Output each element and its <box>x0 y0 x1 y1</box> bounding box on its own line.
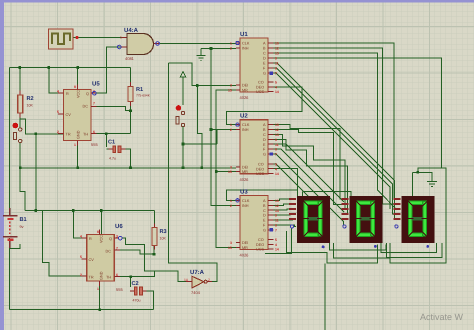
svg-text:TR: TR <box>89 276 94 280</box>
wire pulse generator to U4 input A <box>73 37 127 39</box>
svg-text:6: 6 <box>93 130 95 134</box>
svg-text:1: 1 <box>97 287 99 291</box>
svg-text:3: 3 <box>230 84 232 88</box>
pulse generator <box>49 29 79 49</box>
wire lower vcc bus <box>25 211 154 239</box>
svg-text:CLK: CLK <box>242 42 250 46</box>
pushbutton near R2 <box>13 123 22 143</box>
svg-text:CLK: CLK <box>242 123 250 127</box>
wire U5 DC to R1 <box>91 106 131 110</box>
wire U6 TR chain from U5 area <box>36 211 82 277</box>
svg-text:G: G <box>263 72 266 76</box>
counter IC U2 <box>228 113 279 183</box>
svg-text:DEO: DEO <box>256 243 264 247</box>
digit 0 display 2 <box>355 200 376 238</box>
svg-text:10K: 10K <box>27 104 34 108</box>
svg-text:U3: U3 <box>240 189 248 196</box>
wire U2 G diagonal to display2 <box>274 154 344 226</box>
555 timer U5 <box>57 81 100 148</box>
svg-text:MR: MR <box>242 170 248 174</box>
svg-text:DEO: DEO <box>256 167 264 171</box>
svg-text:14: 14 <box>275 90 279 94</box>
arrow actuator mid <box>180 72 186 106</box>
svg-text:4: 4 <box>57 90 59 94</box>
svg-text:10: 10 <box>275 199 279 203</box>
svg-text:13: 13 <box>275 52 279 56</box>
svg-text:5: 5 <box>275 238 277 242</box>
svg-text:7: 7 <box>275 228 277 232</box>
svg-text:5: 5 <box>57 110 59 114</box>
svg-text:G: G <box>263 153 266 157</box>
wire gnd rail to lower bus zigzag <box>20 168 25 211</box>
svg-text:TR: TR <box>66 133 71 137</box>
svg-text:10: 10 <box>275 123 279 127</box>
wire U3 outputs to display1 <box>274 199 297 226</box>
svg-text:4026: 4026 <box>240 177 250 182</box>
svg-text:CLK: CLK <box>242 199 250 203</box>
svg-text:B1: B1 <box>20 217 27 223</box>
wire U6 DC to R3 bottom <box>114 245 154 254</box>
svg-text:8: 8 <box>97 230 99 234</box>
svg-text:3: 3 <box>230 241 232 245</box>
svg-text:INH: INH <box>242 47 249 51</box>
svg-text:12: 12 <box>275 128 279 132</box>
svg-text:C: C <box>263 209 266 213</box>
resistor R2 <box>18 91 34 118</box>
svg-text:10: 10 <box>275 42 279 46</box>
wire U1 F diagonal to display3 <box>274 68 397 214</box>
pushbutton mid <box>176 105 217 168</box>
wire U4 output to U1 CLK <box>160 43 236 45</box>
wire U2 D staircase to display2 pin4 <box>274 139 348 214</box>
svg-text:15: 15 <box>228 246 232 250</box>
wire R1 lead through DC node to TH <box>91 102 131 134</box>
svg-text:1: 1 <box>74 143 76 147</box>
svg-text:R3: R3 <box>160 229 167 235</box>
svg-text:13: 13 <box>275 209 279 213</box>
svg-text:5: 5 <box>80 255 82 259</box>
svg-text:INH: INH <box>242 204 249 208</box>
capacitor C1 <box>108 140 126 161</box>
svg-text:12: 12 <box>275 47 279 51</box>
svg-text:11: 11 <box>275 62 279 66</box>
svg-text:GND: GND <box>77 130 81 139</box>
svg-text:MR: MR <box>242 89 248 93</box>
wire U6 Q to U7 input <box>122 238 188 282</box>
svg-text:VCC: VCC <box>100 235 104 243</box>
svg-text:GND: GND <box>100 271 104 280</box>
wire U2 F diagonal to display2 <box>274 149 345 212</box>
wire U1 C to display3 pin3 <box>274 53 397 209</box>
window border left <box>0 0 4 330</box>
svg-text:9: 9 <box>275 214 277 218</box>
wire U1 G diagonal to display3 <box>274 73 391 209</box>
svg-text:3: 3 <box>230 165 232 169</box>
svg-text:UCS: UCS <box>256 172 264 176</box>
svg-text:4: 4 <box>275 243 277 247</box>
svg-text:775-694K: 775-694K <box>136 94 151 98</box>
inverter U7:A <box>184 269 212 295</box>
svg-text:7: 7 <box>275 72 277 76</box>
svg-text:INH: INH <box>242 128 249 132</box>
svg-text:15: 15 <box>228 89 232 93</box>
svg-text:15: 15 <box>228 170 232 174</box>
7-segment display 3 <box>394 196 435 248</box>
svg-text:U1: U1 <box>240 31 248 38</box>
svg-text:4081: 4081 <box>125 56 135 61</box>
wire under displays loop 1 <box>329 243 386 250</box>
svg-text:UCS: UCS <box>256 90 264 94</box>
wire U2 CO diagonal to display1 top <box>274 164 309 197</box>
svg-text:D: D <box>263 214 266 218</box>
svg-text:4: 4 <box>80 235 82 239</box>
wire under displays loop 4 <box>324 264 326 331</box>
svg-text:14: 14 <box>275 248 279 252</box>
wire under displays right loops <box>381 168 446 263</box>
wire U1 MR chain <box>216 90 236 248</box>
svg-text:1: 1 <box>230 123 232 127</box>
counter IC U3 <box>228 189 279 258</box>
svg-text:U7:A: U7:A <box>190 269 205 276</box>
svg-text:1: 1 <box>230 42 232 46</box>
window border top <box>0 0 474 3</box>
wire U6 TH joins <box>114 271 154 287</box>
wire under displays loop 3 <box>333 243 390 258</box>
svg-text:2: 2 <box>230 47 232 51</box>
svg-text:5: 5 <box>275 162 277 166</box>
svg-text:UCS: UCS <box>256 248 264 252</box>
wire U5 TR to R2 bottom and button <box>20 113 63 211</box>
digit 0 display 3 <box>407 200 428 238</box>
555 timer U6 <box>80 223 123 292</box>
svg-text:MR: MR <box>242 246 248 250</box>
svg-text:2: 2 <box>80 273 82 277</box>
svg-text:13: 13 <box>275 133 279 137</box>
svg-text:12: 12 <box>275 204 279 208</box>
svg-text:1: 1 <box>230 199 232 203</box>
svg-text:DC: DC <box>106 250 112 254</box>
svg-text:Q: Q <box>109 237 112 241</box>
svg-text:6: 6 <box>275 224 277 228</box>
wire under displays loop 2 <box>265 228 378 263</box>
svg-text:9v: 9v <box>20 225 24 229</box>
wire U2 E diagonal to display2 <box>274 144 345 202</box>
resistor R3 <box>152 224 167 250</box>
wire display top feeds <box>297 190 350 197</box>
svg-text:TH: TH <box>83 133 88 137</box>
svg-text:DEI: DEI <box>242 84 248 88</box>
svg-text:555: 555 <box>91 142 98 147</box>
svg-text:6: 6 <box>275 148 277 152</box>
wire VCC bus top <box>10 68 131 214</box>
svg-text:2: 2 <box>57 130 59 134</box>
digit 0 display 1 <box>303 200 324 238</box>
7-segment display 1 <box>289 196 330 248</box>
svg-text:Activate W: Activate W <box>420 312 464 322</box>
wire U1 E diagonal to display3 <box>274 63 397 219</box>
svg-text:470u: 470u <box>133 299 141 303</box>
svg-text:7: 7 <box>116 247 118 251</box>
svg-text:G: G <box>263 228 266 232</box>
wire battery negative to bottom rail <box>10 238 154 310</box>
svg-text:CO: CO <box>258 162 264 166</box>
svg-text:7: 7 <box>275 153 277 157</box>
svg-text:U4:A: U4:A <box>124 27 139 34</box>
svg-text:555: 555 <box>116 287 123 292</box>
svg-text:7404: 7404 <box>191 290 201 295</box>
svg-text:1A: 1A <box>184 278 189 282</box>
ground symbol near U1 <box>197 56 206 61</box>
svg-text:7: 7 <box>93 102 95 106</box>
wire C1 tap <box>106 134 130 168</box>
svg-text:R1: R1 <box>136 87 143 93</box>
battery B1 <box>3 208 27 248</box>
svg-text:4.7u: 4.7u <box>109 157 116 161</box>
wire U2 C staircase to display2 pin3 <box>274 134 346 209</box>
wire U2 DEI MR from ground rail <box>202 168 236 172</box>
svg-text:C1: C1 <box>108 140 115 146</box>
AND gate U4:A <box>117 27 159 61</box>
svg-text:U5: U5 <box>92 81 100 88</box>
svg-text:1: 1 <box>120 36 122 40</box>
wire DEI tap down to ground rail <box>197 86 202 168</box>
svg-text:10K: 10K <box>160 237 167 241</box>
svg-text:5: 5 <box>275 81 277 85</box>
svg-text:CO: CO <box>258 81 264 85</box>
wire U2 DEO to U3 CLK <box>227 169 298 201</box>
svg-text:R: R <box>89 237 92 241</box>
svg-text:4: 4 <box>275 86 277 90</box>
svg-text:9: 9 <box>275 57 277 61</box>
svg-text:6: 6 <box>275 67 277 71</box>
svg-text:2: 2 <box>230 204 232 208</box>
wire U2 A staircase to display2 pin1 <box>274 125 343 199</box>
svg-text:C2: C2 <box>132 281 139 287</box>
svg-text:U6: U6 <box>115 223 123 230</box>
svg-text:4: 4 <box>275 167 277 171</box>
svg-text:C: C <box>263 52 266 56</box>
svg-text:VCC: VCC <box>77 90 81 98</box>
svg-text:9: 9 <box>275 138 277 142</box>
svg-text:11: 11 <box>275 219 279 223</box>
svg-text:Q: Q <box>86 92 89 96</box>
wire C2 right to bottom rail <box>141 291 154 310</box>
wire INH chain down to U2 INH and U3 INH <box>211 48 236 205</box>
svg-text:6: 6 <box>116 273 118 277</box>
svg-text:R2: R2 <box>27 96 34 102</box>
wire U1 A to display3 pin1 <box>274 43 397 199</box>
counter IC U1 <box>228 31 279 100</box>
wire U4 output loop rail to U7 output <box>169 63 237 282</box>
svg-text:U2: U2 <box>240 113 248 120</box>
svg-text:CO: CO <box>258 238 264 242</box>
wire U5 Q to U4 input B <box>96 47 127 93</box>
resistor R1 <box>128 82 151 106</box>
svg-text:DEI: DEI <box>242 165 248 169</box>
svg-text:DEI: DEI <box>242 241 248 245</box>
svg-text:DEO: DEO <box>256 86 264 90</box>
svg-text:CV: CV <box>66 113 72 117</box>
svg-text:3: 3 <box>116 235 118 239</box>
wire U1 B to display3 pin2 <box>274 48 397 204</box>
svg-text:D: D <box>263 57 266 61</box>
ground symbol top right <box>427 177 437 187</box>
svg-text:2: 2 <box>208 278 210 282</box>
wire U1 DEO to U2 CLK <box>227 87 303 125</box>
wire ground rail mid <box>20 141 236 168</box>
svg-text:CV: CV <box>89 258 95 262</box>
capacitor C2 <box>130 281 147 303</box>
svg-text:8: 8 <box>74 85 76 89</box>
7-segment display 2 <box>342 196 383 248</box>
svg-text:2: 2 <box>230 128 232 132</box>
svg-text:TH: TH <box>106 276 111 280</box>
svg-text:11: 11 <box>275 143 279 147</box>
svg-text:R: R <box>66 92 69 96</box>
wire U1 D to ground top right <box>274 58 442 197</box>
svg-text:4026: 4026 <box>240 95 250 100</box>
wire U1 INH to ground <box>201 48 236 55</box>
svg-text:C: C <box>263 133 266 137</box>
svg-text:4026: 4026 <box>240 253 250 258</box>
wire U2 B staircase to display2 pin2 <box>274 130 343 205</box>
svg-text:D: D <box>263 138 266 142</box>
svg-text:14: 14 <box>275 172 279 176</box>
svg-text:DC: DC <box>83 105 89 109</box>
